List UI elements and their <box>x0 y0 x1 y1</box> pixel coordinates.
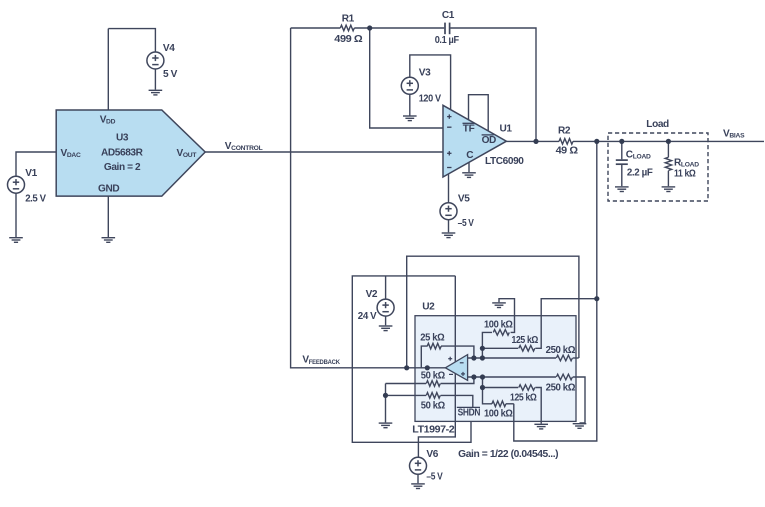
svg-text:125 kΩ: 125 kΩ <box>510 393 537 404</box>
svg-text:R1: R1 <box>342 13 355 24</box>
svg-text:11 kΩ: 11 kΩ <box>674 169 696 180</box>
svg-text:U2: U2 <box>422 302 435 313</box>
svg-text:Gain = 2: Gain = 2 <box>104 162 141 173</box>
svg-text:250 kΩ: 250 kΩ <box>546 345 576 356</box>
svg-text:2.5 V: 2.5 V <box>25 194 46 205</box>
svg-text:Load: Load <box>646 119 669 130</box>
svg-text:LTC6090: LTC6090 <box>485 156 524 167</box>
svg-text:CLOAD: CLOAD <box>626 150 651 161</box>
svg-text:V5: V5 <box>458 194 470 205</box>
svg-text:25 kΩ: 25 kΩ <box>420 333 444 344</box>
svg-text:24 V: 24 V <box>358 311 377 322</box>
svg-text:0.1 µF: 0.1 µF <box>435 35 459 46</box>
svg-text:–5 V: –5 V <box>458 218 475 229</box>
svg-text:TF: TF <box>463 123 475 134</box>
svg-text:2.2 µF: 2.2 µF <box>627 167 653 178</box>
svg-text:250 kΩ: 250 kΩ <box>546 383 576 394</box>
svg-text:50 kΩ: 50 kΩ <box>421 371 445 382</box>
svg-text:Gain = 1/22 (0.04545...): Gain = 1/22 (0.04545...) <box>458 449 558 460</box>
svg-text:RLOAD: RLOAD <box>674 157 699 168</box>
svg-text:GND: GND <box>98 184 119 195</box>
svg-text:LT1997-2: LT1997-2 <box>412 424 455 435</box>
svg-text:C1: C1 <box>442 10 455 21</box>
svg-text:5 V: 5 V <box>163 69 178 80</box>
svg-text:V4: V4 <box>163 43 175 54</box>
svg-text:–5 V: –5 V <box>426 472 443 483</box>
svg-text:100 kΩ: 100 kΩ <box>484 409 513 420</box>
svg-text:100 kΩ: 100 kΩ <box>484 320 513 331</box>
svg-text:120 V: 120 V <box>419 94 442 105</box>
svg-text:499 Ω: 499 Ω <box>334 34 362 45</box>
svg-text:VBIAS: VBIAS <box>723 129 745 140</box>
svg-text:V6: V6 <box>426 449 438 460</box>
svg-text:V2: V2 <box>366 289 378 300</box>
svg-text:OD: OD <box>482 135 496 146</box>
svg-text:R2: R2 <box>558 125 571 136</box>
svg-text:V3: V3 <box>419 68 431 79</box>
svg-text:VCONTROL: VCONTROL <box>225 141 263 152</box>
svg-text:V1: V1 <box>25 168 37 179</box>
svg-text:U3: U3 <box>116 133 129 144</box>
svg-text:U1: U1 <box>500 124 513 135</box>
svg-text:AD5683R: AD5683R <box>101 148 144 159</box>
svg-text:VFEEDBACK: VFEEDBACK <box>302 355 340 366</box>
svg-text:125 kΩ: 125 kΩ <box>512 335 539 346</box>
svg-text:C: C <box>466 150 474 161</box>
svg-text:SHDN: SHDN <box>458 407 481 418</box>
svg-text:49 Ω: 49 Ω <box>556 146 578 157</box>
svg-text:50 kΩ: 50 kΩ <box>421 401 445 412</box>
